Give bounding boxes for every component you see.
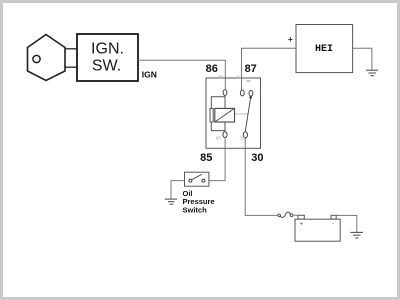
- relay terminal oval 85: [223, 132, 227, 138]
- svg-text:SW.: SW.: [92, 58, 121, 75]
- wire HEI to ground: [353, 48, 372, 70]
- battery BT1: [298, 215, 304, 219]
- ground (oil switch): [165, 199, 177, 204]
- svg-text:30: 30: [239, 136, 245, 141]
- label Oil Pressure Switch: [183, 189, 215, 215]
- svg-text:HEI: HEI: [315, 44, 333, 55]
- ground (battery): [350, 232, 363, 238]
- svg-text:86: 86: [218, 75, 224, 80]
- relay terminal oval 86: [223, 90, 227, 96]
- svg-text:-: -: [332, 221, 334, 227]
- relay internal wires: [211, 95, 225, 131]
- relay common terminal oval: [249, 90, 253, 96]
- relay switch blade: [245, 98, 250, 132]
- wire relay 87 to HEI +: [242, 48, 297, 90]
- oil pressure switch S2: [185, 172, 209, 186]
- ground (HEI): [366, 70, 378, 76]
- svg-text:+: +: [288, 35, 293, 44]
- relay terminal oval 30: [243, 132, 247, 138]
- svg-text:87: 87: [245, 63, 257, 75]
- relay terminal oval 87: [240, 90, 244, 96]
- svg-text:+: +: [299, 221, 303, 227]
- key S1 (ignition key): [28, 35, 78, 81]
- svg-text:85: 85: [200, 152, 212, 164]
- svg-text:85: 85: [216, 136, 222, 141]
- wire battery to ground: [336, 215, 357, 232]
- wire IGN SW to relay 86: [138, 60, 225, 90]
- relay coil: [215, 108, 235, 122]
- wire relay 85 to oil pressure switch: [209, 138, 225, 181]
- svg-text:87: 87: [237, 75, 243, 80]
- tiny red dash: [247, 80, 251, 82]
- svg-text:IGN.: IGN.: [91, 41, 124, 58]
- svg-text:30: 30: [251, 152, 263, 164]
- relay armature link line: [235, 113, 248, 115]
- svg-text:IGN: IGN: [142, 69, 157, 79]
- relay parallel resistor: [210, 109, 213, 123]
- ignition switch box IGN. SW.: [77, 34, 138, 81]
- svg-text:86: 86: [206, 63, 218, 75]
- wire oil switch to ground: [171, 181, 185, 200]
- fusible link F1: [278, 214, 281, 217]
- relay K1 box: [206, 78, 261, 148]
- svg-text:Switch: Switch: [183, 206, 208, 215]
- wire relay 30 to fuse: [245, 138, 278, 216]
- HEI module U1: [296, 25, 353, 73]
